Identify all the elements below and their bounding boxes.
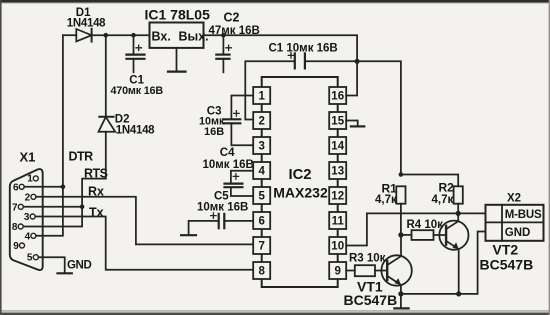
wire DTR (X1 pins 4,6 to D1) bbox=[24, 35, 63, 236]
C1 label bbox=[111, 75, 164, 97]
wire IC1 output bbox=[204, 35, 358, 61]
resistor R2 bbox=[454, 186, 463, 213]
svg-text:1N4148: 1N4148 bbox=[67, 18, 106, 30]
IC2 pin 6 bbox=[253, 212, 270, 229]
RTS label bbox=[84, 167, 108, 181]
X1 pin 8 bbox=[12, 222, 23, 233]
svg-text:47мк 16В: 47мк 16В bbox=[209, 25, 260, 37]
wire Tx (X1 pin 3 to IC2 pin 8) bbox=[35, 217, 253, 270]
svg-text:16В: 16В bbox=[204, 126, 224, 138]
IC2 pin 9 bbox=[329, 262, 346, 279]
svg-text:GND: GND bbox=[67, 260, 91, 272]
C4 label bbox=[203, 147, 254, 171]
IC2 pin 4 bbox=[253, 162, 270, 179]
svg-text:1: 1 bbox=[258, 91, 265, 103]
diode D1 bbox=[63, 29, 150, 42]
C3 label bbox=[199, 106, 225, 138]
regulator IC1 78L05 bbox=[150, 23, 204, 48]
svg-text:C1 10мк 16В: C1 10мк 16В bbox=[269, 43, 338, 55]
svg-text:IC2: IC2 bbox=[288, 167, 311, 183]
X1 pin 7 bbox=[12, 202, 23, 213]
svg-text:5: 5 bbox=[27, 253, 33, 264]
X1 pin 2 bbox=[25, 192, 36, 203]
svg-text:5: 5 bbox=[258, 191, 265, 203]
svg-text:10мк 16В: 10мк 16В bbox=[203, 159, 254, 171]
C2 label bbox=[209, 11, 260, 38]
svg-text:470мк 16В: 470мк 16В bbox=[111, 85, 164, 97]
ground (C5) bbox=[181, 234, 196, 236]
node C1 junction bbox=[131, 33, 136, 38]
svg-text:M-BUS: M-BUS bbox=[505, 209, 542, 221]
M-BUS label bbox=[505, 209, 542, 221]
svg-text:10: 10 bbox=[331, 241, 344, 253]
svg-text:12: 12 bbox=[331, 191, 344, 203]
svg-text:Rx: Rx bbox=[88, 184, 104, 198]
svg-text:9: 9 bbox=[13, 241, 19, 252]
R3 label bbox=[349, 253, 386, 265]
wire ground bus VT1 VT2 X2 bbox=[401, 232, 486, 294]
wire Vcc rail to R1 R2 bbox=[357, 61, 401, 174]
IC2 pin 13 bbox=[329, 162, 346, 179]
svg-text:C4: C4 bbox=[220, 147, 235, 159]
IC2 pin 5 bbox=[253, 187, 270, 204]
node R1 R4 VT1 collector junction bbox=[398, 232, 403, 237]
GND label (X2) bbox=[505, 227, 531, 239]
svg-text:3: 3 bbox=[24, 212, 30, 223]
svg-text:3: 3 bbox=[258, 141, 264, 153]
svg-text:DTR: DTR bbox=[69, 150, 94, 164]
node VT1 emitter ground junction bbox=[398, 291, 403, 296]
svg-text:2: 2 bbox=[258, 116, 264, 128]
R1 label bbox=[375, 182, 397, 207]
D1 label bbox=[67, 7, 106, 30]
capacitor C1 470uF bbox=[127, 35, 145, 72]
wire IC2 pin 10 to M-BUS node bbox=[346, 213, 458, 245]
node C2 junction bbox=[221, 33, 226, 38]
ground (X1 GND) bbox=[58, 272, 72, 274]
IC2 pin 10 bbox=[329, 237, 346, 254]
svg-text:4,7к: 4,7к bbox=[375, 194, 397, 206]
IC2 pin 8 bbox=[253, 262, 270, 279]
X2 label bbox=[507, 193, 521, 205]
svg-text:Вх.: Вх. bbox=[152, 30, 171, 44]
svg-text:GND: GND bbox=[505, 227, 531, 239]
svg-text:R2: R2 bbox=[439, 181, 455, 195]
connector X1 shell bbox=[10, 169, 43, 270]
wire IC2 pin 16 to Vcc node bbox=[346, 61, 357, 95]
X1 label bbox=[20, 150, 36, 165]
X1 pin 1 bbox=[27, 174, 38, 185]
resistor R1 bbox=[396, 186, 405, 235]
op-amp U1 body: IC2 MAX232 bbox=[262, 77, 338, 287]
X1 pin 3 bbox=[24, 212, 35, 223]
wire branch to R2 bbox=[401, 175, 458, 187]
ground (IC1) bbox=[168, 48, 186, 72]
node VT2 emitter on ground bus bbox=[456, 291, 461, 296]
capacitor C4 bbox=[225, 171, 254, 196]
IC2 label bbox=[273, 167, 328, 201]
wire X1 pin 5 to ground bbox=[38, 257, 64, 272]
wire IC2 pin 15 to ground bbox=[346, 121, 358, 126]
capacitor C5 bbox=[189, 213, 254, 235]
wire RTS (X1 pins 7,8 to D2) bbox=[23, 179, 106, 227]
ground (VT1 emitter) bbox=[394, 294, 408, 309]
DTR label bbox=[69, 150, 94, 164]
R2 label bbox=[432, 181, 455, 207]
svg-text:Tx: Tx bbox=[89, 205, 104, 219]
node DTR junction pin6 bbox=[61, 185, 66, 190]
Rx label bbox=[88, 184, 104, 198]
svg-text:4,7к: 4,7к bbox=[432, 194, 454, 206]
node Vcc junction bbox=[355, 59, 360, 64]
IC2 pin 7 bbox=[253, 237, 270, 254]
svg-text:RTS: RTS bbox=[84, 167, 108, 181]
svg-text:9: 9 bbox=[334, 266, 340, 278]
svg-text:15: 15 bbox=[331, 116, 344, 128]
svg-text:7: 7 bbox=[258, 241, 264, 253]
transistor VT2 bbox=[439, 213, 468, 294]
IC2 pin 3 bbox=[253, 137, 270, 154]
IC1 label bbox=[145, 7, 211, 44]
svg-text:Вых.: Вых. bbox=[179, 30, 209, 44]
svg-text:4: 4 bbox=[25, 231, 31, 242]
svg-text:6: 6 bbox=[13, 182, 19, 193]
svg-text:8: 8 bbox=[258, 266, 265, 278]
resistor R3 bbox=[355, 265, 387, 276]
D2 label bbox=[115, 114, 155, 137]
svg-text:VT2: VT2 bbox=[493, 242, 519, 258]
node D1-D2 junction bbox=[104, 33, 109, 38]
connector X2 bbox=[486, 205, 544, 241]
svg-text:BC547B: BC547B bbox=[344, 292, 398, 308]
node RTS junction pin7 bbox=[80, 205, 85, 210]
R4 label bbox=[407, 219, 444, 231]
svg-text:16: 16 bbox=[331, 91, 344, 103]
VT1 label bbox=[344, 279, 398, 309]
svg-text:X1: X1 bbox=[20, 150, 36, 165]
resistor R4 bbox=[401, 230, 446, 240]
svg-text:X2: X2 bbox=[507, 193, 521, 205]
X1 pin 4 bbox=[25, 231, 36, 242]
node R2 VT2 collector M-BUS junction bbox=[456, 211, 461, 216]
svg-text:BC547B: BC547B bbox=[480, 257, 534, 273]
capacitor C3 bbox=[223, 96, 253, 146]
X1 pin 6 bbox=[13, 182, 24, 193]
svg-text:2: 2 bbox=[25, 192, 31, 203]
ground (pin 15) bbox=[351, 125, 364, 127]
svg-text:1: 1 bbox=[27, 174, 33, 185]
GND label bbox=[67, 260, 91, 272]
svg-text:10мк 16В: 10мк 16В bbox=[197, 202, 248, 214]
wire M-BUS to X2 bbox=[458, 212, 485, 214]
IC2 pin 15 bbox=[329, 112, 346, 129]
wire IC2 pin 9 to R3 bbox=[346, 270, 355, 272]
svg-text:MAX232: MAX232 bbox=[273, 185, 328, 201]
svg-text:6: 6 bbox=[258, 216, 264, 228]
transistor VT1 bbox=[381, 235, 411, 294]
svg-text:1N4148: 1N4148 bbox=[116, 125, 155, 137]
svg-text:R4 10к: R4 10к bbox=[407, 219, 444, 231]
capacitor C1 10uF (top, pin2 to Vcc) bbox=[245, 53, 357, 120]
IC2 pin 1 bbox=[253, 87, 270, 104]
svg-text:4: 4 bbox=[258, 166, 265, 178]
IC2 pin 12 bbox=[329, 187, 346, 204]
X1 pin 5 bbox=[27, 253, 38, 264]
C5 label bbox=[197, 191, 248, 214]
VT2 label bbox=[480, 242, 534, 273]
diode D2 bbox=[99, 35, 116, 178]
IC2 pin 14 bbox=[329, 137, 346, 154]
IC2 pin 11 bbox=[329, 212, 346, 229]
IC2 pin 2 bbox=[253, 112, 270, 129]
X1 pin 9 bbox=[13, 241, 24, 252]
svg-text:7: 7 bbox=[12, 202, 18, 213]
IC2 pin 16 bbox=[329, 87, 346, 104]
wire Rx (X1 pin 2 to IC2 pin 7) bbox=[36, 197, 253, 245]
svg-text:8: 8 bbox=[12, 222, 18, 233]
svg-text:14: 14 bbox=[331, 141, 344, 153]
svg-text:C2: C2 bbox=[224, 11, 240, 25]
svg-text:R3 10к: R3 10к bbox=[349, 253, 386, 265]
svg-text:IC1 78L05: IC1 78L05 bbox=[145, 7, 211, 23]
node R1 R2 branch bbox=[399, 172, 404, 177]
Tx label bbox=[89, 205, 104, 219]
C1 10uF label bbox=[269, 43, 338, 55]
svg-text:11: 11 bbox=[332, 216, 345, 228]
capacitor C2 47uF bbox=[216, 35, 231, 72]
svg-text:13: 13 bbox=[331, 166, 344, 178]
